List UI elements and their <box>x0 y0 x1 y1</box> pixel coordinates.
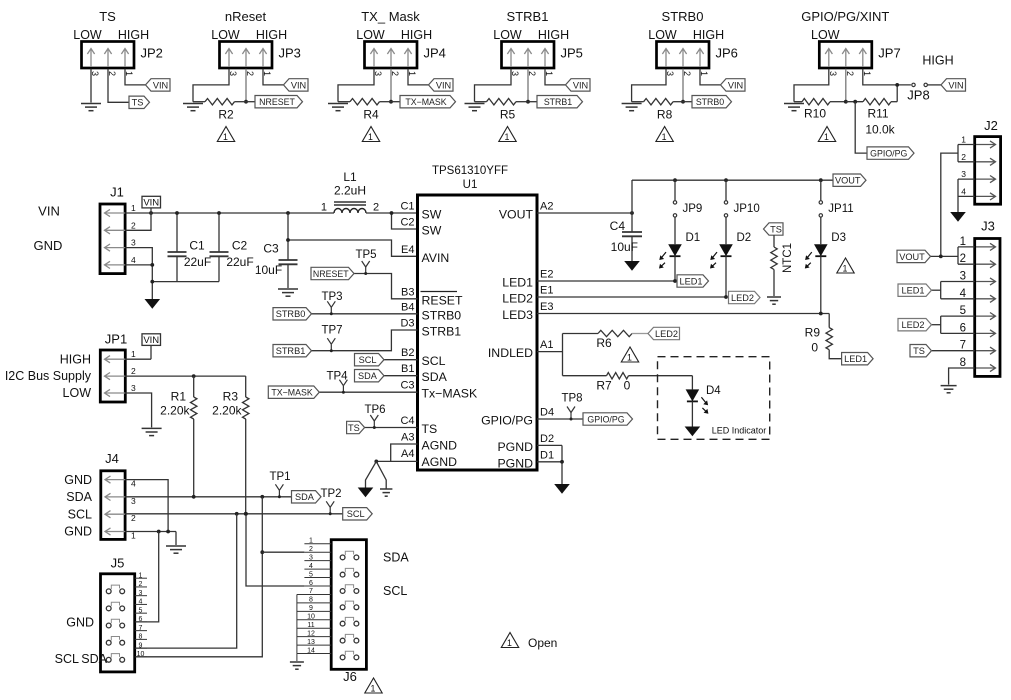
svg-text:10: 10 <box>307 614 315 621</box>
svg-text:2: 2 <box>960 253 966 265</box>
connector J3 <box>960 219 1000 377</box>
svg-text:TX−MASK: TX−MASK <box>405 97 446 107</box>
svg-text:E1: E1 <box>540 285 553 297</box>
svg-text:GND: GND <box>64 473 92 487</box>
svg-text:R5: R5 <box>500 108 516 122</box>
svg-text:Tx−MASK: Tx−MASK <box>422 387 478 401</box>
wire GPIO/PG <box>537 418 583 420</box>
wire PGND <box>537 445 564 484</box>
svg-text:B1: B1 <box>401 363 414 375</box>
svg-text:JP7: JP7 <box>878 46 900 61</box>
svg-text:HIGH: HIGH <box>693 28 724 42</box>
svg-text:A2: A2 <box>540 201 553 213</box>
svg-text:1: 1 <box>371 683 376 693</box>
svg-text:R8: R8 <box>657 108 673 122</box>
svg-text:LED3: LED3 <box>502 308 533 322</box>
jumper JP8 <box>907 54 953 103</box>
svg-text:1: 1 <box>824 132 829 142</box>
wire SDA branch to J6 pin2 <box>262 551 304 553</box>
svg-text:6: 6 <box>960 322 966 334</box>
svg-text:1: 1 <box>961 135 966 145</box>
svg-text:2: 2 <box>309 546 313 553</box>
test point TP3 <box>321 291 342 315</box>
IC U1 TPS61310YFF <box>418 165 538 470</box>
resistor R5 <box>475 99 529 122</box>
ground (JP6) <box>622 104 642 111</box>
label Open <box>528 636 557 650</box>
wire JP3 pin2 down <box>244 69 248 104</box>
flag VIN (JP8) <box>941 79 966 91</box>
svg-text:5: 5 <box>309 571 313 578</box>
svg-text:10uF: 10uF <box>255 263 282 277</box>
svg-text:VOUT: VOUT <box>899 252 925 262</box>
svg-text:R10: R10 <box>804 107 826 121</box>
U1 pin B3 RESET <box>401 286 463 307</box>
flag TS (J3) <box>910 345 932 357</box>
svg-text:NRESET: NRESET <box>259 97 295 107</box>
svg-text:GPIO/PG: GPIO/PG <box>870 149 907 159</box>
svg-text:1: 1 <box>139 572 143 579</box>
svg-text:A3: A3 <box>401 432 414 444</box>
jumper JP11 <box>819 178 854 217</box>
node GPIO/PG tap <box>853 100 857 104</box>
svg-text:HIGH: HIGH <box>60 352 91 366</box>
wire J1 pin1 VIN rail <box>125 211 334 215</box>
svg-text:E3: E3 <box>540 301 553 313</box>
svg-text:2: 2 <box>373 202 379 214</box>
thermistor NTC1 <box>771 235 794 296</box>
svg-text:SW: SW <box>422 224 442 238</box>
connector J4 <box>101 451 136 541</box>
ground (JP5) <box>465 104 485 111</box>
wire AVIN <box>286 238 417 256</box>
svg-text:TP2: TP2 <box>320 488 341 500</box>
wire JP5 pin1 to VIN <box>545 69 566 85</box>
svg-text:D2: D2 <box>540 433 554 445</box>
svg-text:12: 12 <box>307 630 315 637</box>
svg-text:2: 2 <box>139 581 143 588</box>
ground (AGND bars) <box>380 489 392 496</box>
flag STRB1 (U1) <box>273 345 312 357</box>
svg-text:B3: B3 <box>401 286 414 298</box>
svg-text:0: 0 <box>811 341 818 355</box>
svg-text:VIN: VIN <box>38 204 60 219</box>
svg-text:SW: SW <box>422 208 442 222</box>
svg-text:3: 3 <box>309 554 313 561</box>
J6 pin stubs <box>297 538 354 656</box>
wire JP2 pin2 to TS flag <box>108 69 129 103</box>
svg-text:J1: J1 <box>110 185 124 200</box>
test point TP5 <box>355 249 376 275</box>
flag VIN (JP1) <box>142 334 161 346</box>
svg-text:2.2uH: 2.2uH <box>334 184 366 198</box>
svg-text:C1: C1 <box>189 239 205 253</box>
flag VIN (JP3 pin 1) <box>284 79 309 91</box>
svg-text:STRB0: STRB0 <box>422 308 462 322</box>
svg-text:13: 13 <box>307 639 315 646</box>
wire J2 pins 1-2 bracket <box>941 145 975 257</box>
svg-text:TS: TS <box>348 423 360 433</box>
svg-text:3: 3 <box>960 271 966 283</box>
wire VOUT rail <box>632 179 833 181</box>
wire SDA bus down <box>135 497 264 657</box>
U1 pin C4 TS <box>400 415 437 436</box>
resistor R10 <box>794 99 846 121</box>
svg-text:VIN: VIN <box>143 197 159 208</box>
svg-text:D1: D1 <box>540 449 554 461</box>
LED D2 <box>710 217 751 297</box>
svg-text:JP6: JP6 <box>716 46 738 61</box>
svg-text:5: 5 <box>139 607 143 614</box>
svg-text:6: 6 <box>309 580 313 587</box>
label I2C Bus Supply <box>5 369 92 383</box>
jumper JP1 <box>100 332 136 403</box>
svg-text:TP4: TP4 <box>326 371 348 383</box>
flag TS (JP2 pin 2) <box>129 96 150 108</box>
svg-text:1: 1 <box>843 263 848 273</box>
jumper JP10 <box>724 178 760 217</box>
svg-text:2: 2 <box>131 513 136 523</box>
svg-text:3: 3 <box>139 590 143 597</box>
jumper JP5 <box>502 42 555 69</box>
svg-text:HIGH: HIGH <box>538 28 569 42</box>
U1 pin A4 AGND <box>401 448 457 469</box>
U1 pin E3 LED3 <box>502 301 553 322</box>
svg-text:C4: C4 <box>610 219 626 233</box>
svg-text:HIGH: HIGH <box>118 28 149 42</box>
ground (NTC1) <box>767 297 781 304</box>
capacitor C1 22uF <box>168 211 212 282</box>
svg-text:10.0k: 10.0k <box>865 123 895 137</box>
svg-text:GPIO/PG: GPIO/PG <box>587 414 624 424</box>
wire VOUT to J3 pins 1-2 <box>931 247 975 264</box>
svg-text:1: 1 <box>309 538 313 545</box>
svg-text:LED2: LED2 <box>502 292 533 306</box>
svg-text:TX_ Mask: TX_ Mask <box>361 9 420 24</box>
svg-text:7: 7 <box>960 340 966 352</box>
svg-text:JP1: JP1 <box>105 332 127 347</box>
wire JP6 pin2 down <box>681 69 685 104</box>
svg-text:R3: R3 <box>223 390 239 404</box>
svg-text:STRB1: STRB1 <box>422 325 462 339</box>
svg-text:LED2: LED2 <box>731 293 754 303</box>
resistor R2 <box>193 99 246 122</box>
svg-text:8: 8 <box>139 634 143 641</box>
flag LED2 (D2) <box>729 291 761 303</box>
svg-text:4: 4 <box>961 186 966 196</box>
LED indicator dashed box <box>658 357 770 440</box>
svg-text:7: 7 <box>139 625 143 632</box>
svg-text:7: 7 <box>309 588 313 595</box>
svg-text:GND: GND <box>64 525 92 539</box>
svg-text:J6: J6 <box>343 669 357 684</box>
svg-text:NTC1: NTC1 <box>782 243 794 273</box>
svg-text:4: 4 <box>131 255 136 265</box>
svg-text:LOW: LOW <box>63 386 92 400</box>
svg-text:TPS61310YFF: TPS61310YFF <box>432 165 508 177</box>
wire JP2 pin1 to VIN <box>125 69 146 85</box>
inductor L1 2.2uH <box>321 170 379 214</box>
svg-text:STRB0: STRB0 <box>662 9 704 24</box>
U1 pin C1 SW <box>400 201 441 222</box>
svg-text:D1: D1 <box>686 232 701 244</box>
resistor R11 10.0k <box>846 99 897 137</box>
wire LED2 net <box>537 295 728 299</box>
wire J1 pin2 up to VIN rail <box>125 213 151 230</box>
label SCL (J4 pin2) <box>68 507 92 521</box>
label SDA (J4 pin3) <box>66 490 92 504</box>
connector J5 <box>101 574 135 672</box>
svg-text:10: 10 <box>137 651 145 658</box>
wire SDA row <box>125 495 291 499</box>
flag SCL (TP2) <box>343 508 373 520</box>
flag LED2 (R6) <box>648 327 680 339</box>
label J6 <box>343 669 357 684</box>
flag STRB0 (U1) <box>273 308 312 320</box>
svg-text:STRB0: STRB0 <box>696 97 724 107</box>
U1 pin C2 SW <box>400 217 441 238</box>
svg-text:VIN: VIN <box>436 80 451 90</box>
U1 pin D2 PGND <box>497 433 554 454</box>
svg-text:A1: A1 <box>540 339 553 351</box>
wire JP4 pin1 to VIN <box>408 69 429 85</box>
svg-text:R1: R1 <box>171 390 187 404</box>
U1 pin B2 SCL <box>401 347 446 368</box>
flag TX-MASK (U1) <box>268 386 319 398</box>
svg-text:TS: TS <box>770 224 782 234</box>
svg-text:LOW: LOW <box>648 28 677 42</box>
svg-text:R9: R9 <box>805 326 821 340</box>
svg-text:5: 5 <box>960 305 966 317</box>
svg-text:2: 2 <box>131 220 136 230</box>
ground (C3) <box>278 289 298 296</box>
wire SCL to U1 <box>384 359 418 361</box>
resistor R9 0 <box>805 314 842 359</box>
svg-text:GPIO/PG/XINT: GPIO/PG/XINT <box>801 9 889 24</box>
svg-text:SDA: SDA <box>422 370 448 384</box>
U1 pin B1 SDA <box>401 363 448 384</box>
wire SCL branch to J6 pin6 <box>244 512 304 586</box>
wire JP8 to VIN <box>928 84 941 86</box>
svg-text:HIGH: HIGH <box>256 28 287 42</box>
svg-text:9: 9 <box>139 642 143 649</box>
label GND (J4 pin4) <box>64 473 92 487</box>
LED D1 <box>659 217 700 281</box>
flag SDA (TP1) <box>292 491 322 503</box>
svg-text:R7: R7 <box>596 379 612 393</box>
ground (AGND arrow) <box>358 488 374 498</box>
svg-text:VIN: VIN <box>728 80 743 90</box>
wire GND bus J4 to J5 pin6 <box>135 532 159 622</box>
wire INDLED <box>537 334 563 376</box>
test point TP1 <box>269 471 290 498</box>
warning triangle 1 (R8) <box>656 127 673 142</box>
ground (JP3) <box>183 104 203 111</box>
svg-text:TP8: TP8 <box>561 393 582 405</box>
svg-text:SCL: SCL <box>347 509 365 519</box>
svg-text:D2: D2 <box>737 232 752 244</box>
svg-text:TX−MASK: TX−MASK <box>271 388 312 398</box>
svg-text:E4: E4 <box>401 244 414 256</box>
ground (J4) <box>166 546 186 553</box>
wire JP5 pin2 to flag <box>528 101 537 103</box>
label LED Indicator <box>712 426 767 436</box>
wire J2 pins 3-4 to ground <box>958 179 975 212</box>
test point TP8 <box>561 393 582 421</box>
svg-text:JP2: JP2 <box>141 46 163 61</box>
svg-text:1: 1 <box>507 638 512 648</box>
flag VOUT (J3) <box>897 250 931 262</box>
svg-text:LOW: LOW <box>811 28 840 42</box>
wire JP5 pin2 down <box>526 69 530 104</box>
svg-text:8: 8 <box>960 357 966 369</box>
jumper JP3 <box>220 42 273 69</box>
svg-text:1: 1 <box>368 132 373 142</box>
flag LED1 (R9) <box>842 353 874 365</box>
svg-text:E2: E2 <box>540 269 553 281</box>
wire JP7 pin2 down <box>844 69 848 104</box>
wire GPIO/PG tap down <box>855 102 867 153</box>
svg-text:11: 11 <box>307 622 314 629</box>
svg-text:22uF: 22uF <box>184 255 211 269</box>
wire JP6 pin3 to resistor <box>632 69 666 102</box>
svg-text:6: 6 <box>139 616 143 623</box>
svg-text:J2: J2 <box>984 118 998 133</box>
svg-text:LOW: LOW <box>493 28 522 42</box>
svg-text:SCL: SCL <box>55 652 79 666</box>
label J5 <box>111 556 125 571</box>
test point TP7 <box>321 325 342 353</box>
label SCL SDA (J5) <box>55 652 108 666</box>
flag STRB0 (JP6) <box>692 96 732 108</box>
wire LED3 net <box>537 312 829 316</box>
svg-text:GPIO/PG: GPIO/PG <box>481 414 533 428</box>
wire LED1 to J3 pins 3-4 <box>932 282 975 299</box>
flag GPIO/PG (U1) <box>583 413 633 425</box>
svg-text:1: 1 <box>131 349 136 359</box>
flag NRESET (JP3) <box>255 96 303 108</box>
flag SCL (U1) <box>355 354 385 366</box>
svg-text:LED1: LED1 <box>680 276 703 286</box>
U1 pin D1 PGND <box>497 449 554 470</box>
svg-text:HIGH: HIGH <box>401 28 432 42</box>
svg-text:C2: C2 <box>232 239 248 253</box>
svg-text:SDA: SDA <box>81 652 107 666</box>
svg-text:D3: D3 <box>400 318 414 330</box>
svg-text:C4: C4 <box>400 415 414 427</box>
flag TS (U1) <box>347 421 365 433</box>
resistor R7 0 <box>563 373 693 393</box>
warning triangle 1 (R10) <box>818 127 835 142</box>
U1 pin A3 AGND <box>401 432 457 453</box>
flag LED1 (D1) <box>677 275 709 287</box>
svg-text:TP1: TP1 <box>269 471 290 483</box>
svg-text:VIN: VIN <box>143 335 159 346</box>
U1 pin B4 STRB0 <box>401 301 461 322</box>
svg-text:1: 1 <box>321 202 327 214</box>
svg-text:R11: R11 <box>867 107 888 121</box>
svg-text:AGND: AGND <box>422 455 458 469</box>
svg-text:VIN: VIN <box>948 80 963 90</box>
U1 pin E4 AVIN <box>401 244 449 265</box>
svg-text:PGND: PGND <box>497 440 533 454</box>
flag GPIO/PG (R11) <box>867 147 914 159</box>
warning triangle 1 (R5) <box>499 127 516 142</box>
svg-text:SDA: SDA <box>66 490 92 504</box>
wire STRB1 net <box>311 330 418 351</box>
U1 pin E1 LED2 <box>502 285 553 306</box>
svg-text:SCL: SCL <box>359 355 377 365</box>
U1 pin A1 INDLED <box>488 339 554 360</box>
svg-text:JP3: JP3 <box>279 46 301 61</box>
warning triangle 1 (J6) <box>365 678 382 693</box>
label SDA (J6) <box>383 551 409 565</box>
svg-text:TP3: TP3 <box>321 291 342 303</box>
svg-text:STRB1: STRB1 <box>507 9 549 24</box>
svg-text:HIGH: HIGH <box>922 54 953 68</box>
svg-text:LED1: LED1 <box>902 286 925 296</box>
warning triangle 1 (R4) <box>362 127 379 142</box>
svg-text:LED Indicator: LED Indicator <box>712 426 767 436</box>
svg-text:TS: TS <box>99 9 116 24</box>
svg-text:2.20k: 2.20k <box>160 404 190 418</box>
wire JP1 pin2 to R1 R3 <box>125 374 245 378</box>
svg-text:R2: R2 <box>218 108 234 122</box>
wire JP4 pin3 to resistor <box>338 69 374 102</box>
svg-text:3: 3 <box>961 169 966 179</box>
jumper JP6 <box>657 42 710 69</box>
svg-text:SCL: SCL <box>383 584 407 598</box>
svg-text:GND: GND <box>66 616 94 630</box>
svg-text:1: 1 <box>505 132 510 142</box>
flag TS (NTC1) <box>764 223 784 235</box>
label LOW (JP1) <box>63 386 92 400</box>
wire L1 to SW pins <box>366 211 418 229</box>
flag VIN (JP6 pin 1) <box>721 79 746 91</box>
ground (JP2) <box>81 104 101 111</box>
svg-text:LED1: LED1 <box>502 276 533 290</box>
wire JP1 pin3 to ground <box>125 393 151 427</box>
warning triangle 1 (R6) <box>621 347 638 362</box>
svg-text:JP5: JP5 <box>561 46 583 61</box>
svg-text:I2C Bus Supply: I2C Bus Supply <box>5 369 92 383</box>
svg-text:RESET: RESET <box>422 293 463 307</box>
resistor R4 <box>338 99 391 122</box>
jumper JP7 <box>819 42 872 69</box>
svg-text:1: 1 <box>960 236 966 248</box>
wire JP2 pin3 to ground <box>90 69 92 103</box>
svg-text:JP8: JP8 <box>907 88 929 103</box>
wire JP1 pin1 to VIN <box>125 346 151 360</box>
svg-text:nReset: nReset <box>225 9 267 24</box>
wire TX-MASK net <box>319 391 418 393</box>
wire JP4 pin2 to flag <box>391 101 400 103</box>
LED D3 <box>805 217 846 313</box>
U1 pin D3 STRB1 <box>400 318 461 339</box>
flag LED2 (J3) <box>898 319 932 331</box>
warning triangle 1 (D3) <box>837 258 854 273</box>
svg-text:STRB1: STRB1 <box>276 346 306 356</box>
svg-text:TP5: TP5 <box>355 249 376 261</box>
wire JP7 pin3 to R10 <box>794 69 829 102</box>
flag STRB1 (JP5) <box>537 96 583 108</box>
resistor R6 <box>563 330 649 350</box>
wire SCL row <box>125 512 343 516</box>
svg-text:SCL: SCL <box>422 354 446 368</box>
svg-text:INDLED: INDLED <box>488 346 533 360</box>
flag NRESET <box>311 267 354 279</box>
wire JP4 pin2 down <box>389 69 393 104</box>
